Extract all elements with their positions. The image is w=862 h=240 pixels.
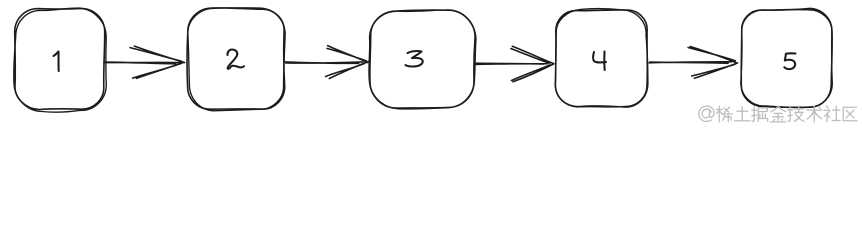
arrow 4→5: [649, 47, 737, 79]
arrow 3→4: [476, 46, 554, 82]
arrow 1→2: [104, 46, 185, 78]
label digit 2: [227, 49, 244, 68]
label digit 5: [784, 53, 795, 69]
box 4: [555, 10, 647, 107]
watermark @稀土掘金技术社区: [699, 106, 714, 121]
label digit 4: [593, 52, 606, 71]
box 1: [15, 9, 105, 110]
box 2: [187, 8, 285, 109]
box 3: [370, 10, 475, 108]
label digit 3: [406, 51, 423, 66]
label digit 1: [54, 52, 59, 72]
arrow 2→3: [285, 46, 369, 79]
box 5: [741, 10, 832, 108]
